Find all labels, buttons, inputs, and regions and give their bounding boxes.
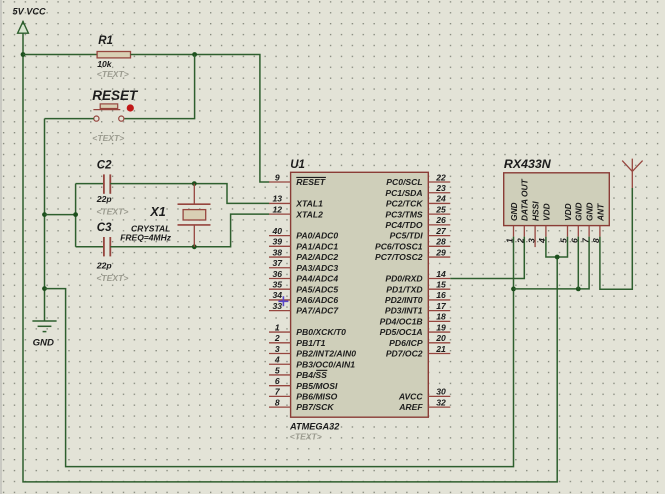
svg-text:20: 20 [435,333,446,343]
svg-text:HSSI: HSSI [531,201,541,221]
svg-text:36: 36 [273,269,283,279]
U1 pin 27 PC5/TDI [390,226,451,241]
junction X1 bottom [192,244,197,249]
svg-text:GND: GND [585,202,595,221]
svg-text:PC3/TMS: PC3/TMS [385,209,423,219]
U1 pin 32 AREF [398,397,450,412]
svg-text:17: 17 [436,301,447,311]
U1 pin 16 PD2/INT0 [385,290,450,305]
svg-text:6: 6 [275,376,280,386]
U1 pin 17 PD3/INT1 [385,301,450,316]
svg-text:PD4/OC1B: PD4/OC1B [380,316,423,326]
U1 pin 33 PA7/ADC7 [269,301,339,316]
capacitor C3 [96,222,129,283]
svg-text:C2: C2 [97,160,112,172]
U1 pin 8 PB7/SCK [269,397,334,412]
svg-text:PC7/TOSC2: PC7/TOSC2 [375,252,423,262]
U1 pin 1 PB0/XCK/T0 [269,322,346,337]
svg-text:22p: 22p [96,194,112,204]
junction GND link / pin 6 [576,287,581,292]
svg-text:C3: C3 [97,222,112,234]
RX433N pin 1 GND [505,202,519,243]
U1 pin 18 PD4/OC1B [380,312,451,327]
svg-text:37: 37 [273,258,284,268]
svg-text:2: 2 [274,333,280,343]
RF module RX433N body [504,157,610,225]
svg-text:PA5/ADC5: PA5/ADC5 [296,284,338,294]
wire C3 left [76,246,104,248]
svg-text:PC4/TDO: PC4/TDO [385,220,423,230]
svg-text:PB7/SCK: PB7/SCK [296,402,334,412]
junction GND rail / C2-C3 branch [42,212,47,217]
U1 pin 5 PB4/SS [269,365,327,380]
svg-text:1: 1 [275,322,280,332]
junction R1 out / reset button branch [192,52,197,57]
svg-text:39: 39 [273,237,283,247]
RX433N pin 7 GND [580,202,594,243]
junction GND rail / bottom loop [42,286,47,291]
svg-text:ATMEGA32: ATMEGA32 [289,421,340,431]
svg-text:21: 21 [435,344,446,354]
U1 pin 20 PD6/ICP [389,333,450,348]
svg-text:13: 13 [273,194,283,204]
svg-text:PA7/ADC7: PA7/ADC7 [296,306,339,316]
svg-text:<TEXT>: <TEXT> [92,133,124,143]
svg-text:PC1/SDA: PC1/SDA [385,188,422,198]
svg-text:RX433N: RX433N [504,157,552,171]
antenna [622,159,642,188]
U1 pin 12 XTAL2 [269,204,323,219]
svg-text:GND: GND [509,202,519,221]
origin marker at PA6 pin [278,296,288,306]
svg-text:32: 32 [436,397,446,407]
svg-text:PB1/T1: PB1/T1 [296,338,325,348]
RX433N pin 8 ANT [591,203,605,243]
svg-text:30: 30 [436,387,446,397]
svg-text:PD5/OC1A: PD5/OC1A [380,327,423,337]
svg-text:4: 4 [537,238,547,244]
svg-text:19: 19 [436,322,446,332]
U1 pin 26 PC4/TDO [385,215,450,230]
wire RX pin 2 DATA OUT to U1 PD0/RXD pin 14 [450,237,524,279]
wire C2 left [76,183,104,185]
op IC U1 body [289,159,428,442]
junction GND link / pin 1 [511,287,516,292]
crystal X1 [120,184,210,247]
RX433N pin 5 VDD [559,203,573,243]
svg-text:GND: GND [33,338,54,349]
svg-text:PA0/ADC0: PA0/ADC0 [296,231,338,241]
U1 pin 30 AVCC [398,387,450,402]
U1 pin 40 PA0/ADC0 [269,226,338,241]
svg-text:PA6/ADC6: PA6/ADC6 [296,295,338,305]
junction VDD link [555,255,560,260]
svg-text:16: 16 [436,290,446,300]
svg-text:PB5/MOSI: PB5/MOSI [296,381,338,391]
svg-text:GND: GND [574,202,584,221]
svg-text:35: 35 [273,280,283,290]
wire GND link pins 1,6,7 [514,237,590,289]
svg-text:5: 5 [275,365,280,375]
U1 pin 19 PD5/OC1A [380,322,451,337]
wire RX pin 6 GND down [577,237,579,289]
svg-text:PD6/ICP: PD6/ICP [389,338,423,348]
wire VCC rail: power symbol down left edge, across bottom, up to RX VDD [23,33,557,482]
U1 pin 9 RESET [269,172,326,187]
wire R1 right to corner, down to U1 RESET pin 9 [131,55,270,183]
svg-text:27: 27 [435,226,447,236]
RX433N pin 3 HSSI [526,201,540,247]
svg-text:R1: R1 [98,35,113,47]
svg-text:33: 33 [273,301,283,311]
svg-text:40: 40 [272,226,283,236]
svg-text:24: 24 [435,194,446,204]
wire GND rail down [44,119,46,321]
RX433N pin 4 VDD [537,203,551,244]
svg-text:PB4/SS: PB4/SS [296,370,327,380]
RX433N pin 6 GND [570,202,584,243]
wire button left terminal to GND rail [45,118,94,120]
svg-text:PC5/TDI: PC5/TDI [390,231,424,241]
svg-text:PA2/ADC2: PA2/ADC2 [296,252,338,262]
svg-text:38: 38 [273,247,283,257]
wire C3 right to XTAL2 pin 12 [110,214,269,247]
U1 pin 14 PD0/RXD [385,269,450,284]
svg-text:AREF: AREF [398,402,423,412]
U1 pin 21 PD7/OC2 [386,344,450,359]
ground [32,321,56,349]
U1 pin 34 PA6/ADC6 [269,290,338,305]
svg-text:VDD: VDD [563,203,573,221]
svg-text:8: 8 [275,397,280,407]
wire GND rail to caps column [45,214,76,216]
svg-text:XTAL2: XTAL2 [295,209,323,219]
svg-text:5V VCC: 5V VCC [13,7,47,17]
svg-text:18: 18 [436,312,446,322]
U1 pin 24 PC2/TCK [386,194,450,209]
svg-text:PC0/SCL: PC0/SCL [386,177,422,187]
svg-text:<TEXT>: <TEXT> [96,273,128,283]
svg-text:RESET: RESET [296,177,325,187]
svg-text:DATA OUT: DATA OUT [520,178,530,221]
svg-text:PA4/ADC4: PA4/ADC4 [296,274,338,284]
wire antenna to RX pin 8 ANT [600,188,632,289]
svg-text:28: 28 [435,237,446,247]
svg-text:23: 23 [435,183,446,193]
junction caps column [73,212,78,217]
svg-text:<TEXT>: <TEXT> [97,69,129,79]
wire VDD U-link pins 4-5 of RX [546,237,568,257]
svg-text:3: 3 [526,238,536,243]
U1 pin 7 PB6/MISO [269,387,338,402]
svg-text:VDD: VDD [541,203,551,221]
U1 pin 4 PB3/OC0/AIN1 [269,355,355,370]
svg-text:9: 9 [275,172,280,182]
svg-text:10k: 10k [97,59,113,69]
svg-text:PD7/OC2: PD7/OC2 [386,349,423,359]
U1 pin 13 XTAL1 [269,194,323,209]
svg-text:PD3/INT1: PD3/INT1 [385,306,423,316]
svg-text:FREQ=4MHz: FREQ=4MHz [120,233,172,243]
U1 pin 3 PB2/INT2/AIN0 [269,344,356,359]
wire C2 right to XTAL1 pin 13 [110,184,269,204]
svg-text:PB2/INT2/AIN0: PB2/INT2/AIN0 [296,349,356,359]
svg-text:ANT: ANT [595,203,605,222]
svg-text:PA1/ADC1: PA1/ADC1 [296,241,338,251]
svg-text:PB6/MISO: PB6/MISO [296,392,337,402]
resistor R1 [97,35,131,79]
svg-text:AVCC: AVCC [398,392,424,402]
junction VCC / R1 [21,52,26,57]
U1 pin 35 PA5/ADC5 [269,280,338,295]
svg-text:29: 29 [435,247,446,257]
U1 pin 37 PA3/ADC3 [269,258,338,273]
svg-text:PB3/OC0/AIN1: PB3/OC0/AIN1 [296,359,355,369]
U1 pin 22 PC0/SCL [386,172,450,187]
U1 pin 25 PC3/TMS [385,204,450,219]
svg-text:12: 12 [273,204,283,214]
svg-text:22p: 22p [96,261,112,271]
svg-text:<TEXT>: <TEXT> [96,206,128,216]
U1 pin 29 PC7/TOSC2 [375,247,450,262]
svg-text:<TEXT>: <TEXT> [290,432,322,442]
svg-text:PC2/TCK: PC2/TCK [386,199,424,209]
U1 pin 2 PB1/T1 [269,333,326,348]
U1 pin 15 PD1/TXD [386,280,450,295]
U1 pin 36 PA4/ADC4 [269,269,338,284]
svg-text:X1: X1 [149,205,165,219]
svg-text:5: 5 [559,238,569,243]
svg-text:PB0/XCK/T0: PB0/XCK/T0 [296,327,346,337]
svg-text:25: 25 [435,204,446,214]
svg-text:26: 26 [435,215,446,225]
svg-text:PD1/TXD: PD1/TXD [386,284,422,294]
svg-text:14: 14 [436,269,446,279]
capacitor C2 [96,160,129,217]
U1 pin 39 PA1/ADC1 [269,237,338,252]
svg-text:RESET: RESET [92,88,139,103]
wire junction down to button right terminal [124,55,194,119]
svg-text:34: 34 [273,290,283,300]
U1 pin 38 PA2/ADC2 [269,247,338,262]
svg-text:3: 3 [275,344,280,354]
wire RX pin 1 GND down to junction [513,237,515,289]
wire VCC to R1 left [23,54,97,56]
svg-text:4: 4 [274,355,280,365]
wire caps column vertical [75,184,77,247]
svg-text:22: 22 [435,172,446,182]
U1 pin 6 PB5/MOSI [269,376,338,391]
svg-text:PA3/ADC3: PA3/ADC3 [296,263,338,273]
svg-text:XTAL1: XTAL1 [295,199,323,209]
svg-text:U1: U1 [290,159,305,171]
svg-text:PC6/TOSC1: PC6/TOSC1 [375,241,423,251]
junction X1 top [192,181,197,186]
U1 pin 23 PC1/SDA [385,183,450,198]
U1 pin 28 PC6/TOSC1 [375,237,450,252]
svg-text:PD0/RXD: PD0/RXD [385,274,422,284]
RX433N pin 2 DATA OUT [516,178,530,244]
svg-text:PD2/INT0: PD2/INT0 [385,295,423,305]
power 5V VCC [13,7,47,34]
svg-text:15: 15 [436,280,446,290]
button RESET [92,88,139,143]
wire GND bottom loop: rail to inner bottom line up to RX pin 1 [45,289,514,467]
